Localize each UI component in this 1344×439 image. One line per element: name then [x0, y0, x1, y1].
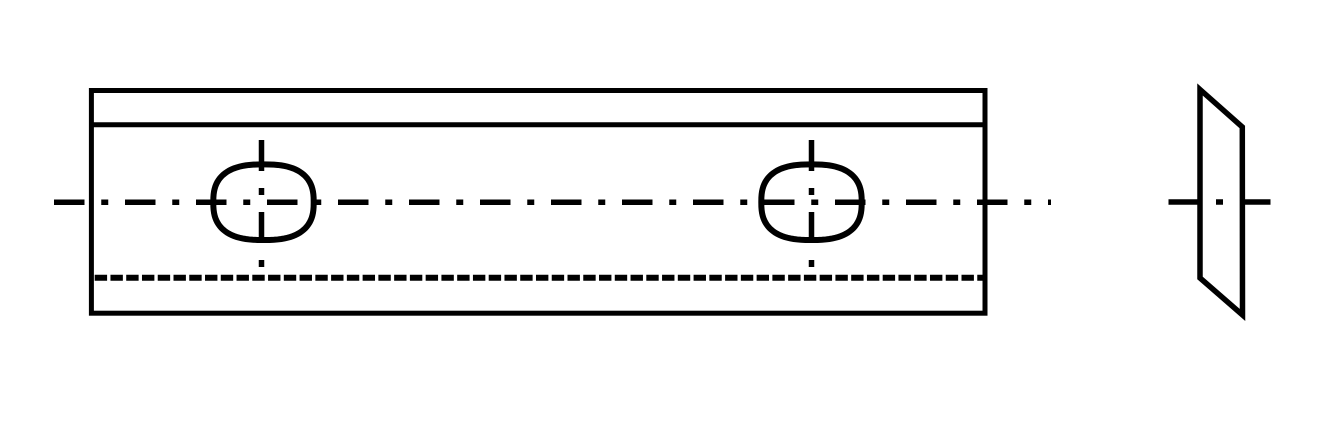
- hole H2: [761, 164, 861, 240]
- horizontal centerline: [54, 200, 1051, 206]
- hole H1 vertical centerline: [259, 140, 265, 267]
- hole H2 vertical centerline: [809, 140, 815, 267]
- cutting edge line: [89, 122, 988, 127]
- bevel dashed line: [95, 275, 986, 281]
- side view centerline: [1169, 199, 1271, 205]
- hole H1: [213, 164, 313, 240]
- side view outline: [1200, 90, 1243, 316]
- front view outline: [91, 91, 985, 314]
